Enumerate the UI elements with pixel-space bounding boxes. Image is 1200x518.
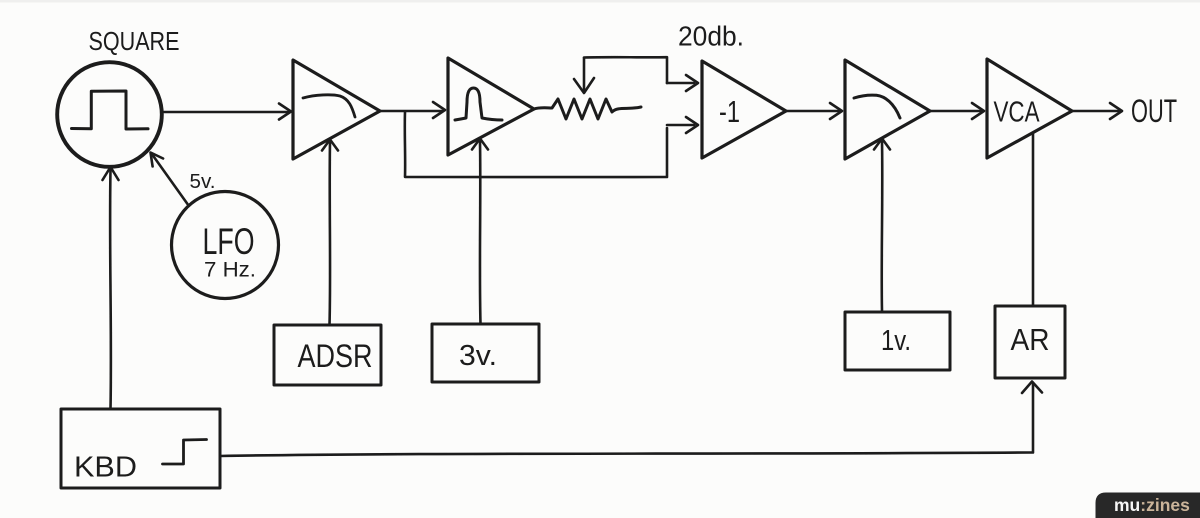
wire: filter A output to filter B bbox=[380, 102, 445, 118]
box ADSR bbox=[274, 325, 381, 385]
svg-text:mu:zines: mu:zines bbox=[1114, 495, 1190, 515]
svg-text:SQUARE: SQUARE bbox=[89, 26, 180, 56]
node: feedback junction and wire down/right to -1 lower input bbox=[405, 112, 698, 177]
filter B triangle (bandpass VCF) bbox=[448, 58, 534, 155]
resistor (20db attenuator) bbox=[534, 99, 641, 119]
box AR bbox=[995, 306, 1065, 378]
scan edge shading (top) bbox=[0, 0, 1200, 3]
svg-text:5v.: 5v. bbox=[190, 171, 216, 193]
label "LFO" bbox=[203, 221, 255, 262]
svg-text:20db.: 20db. bbox=[678, 21, 744, 52]
svg-text:1v.: 1v. bbox=[881, 325, 911, 357]
box 1v. bbox=[845, 312, 950, 370]
svg-text:KBD: KBD bbox=[74, 452, 137, 484]
filter A triangle (lowpass VCF) bbox=[293, 60, 380, 159]
bandpass response curve inside filter B bbox=[455, 88, 502, 120]
label "OUT" bbox=[1131, 93, 1177, 129]
label "SQUARE" bbox=[89, 26, 180, 56]
label "20db." bbox=[678, 21, 744, 52]
wire: VCA output to OUT bbox=[1072, 103, 1122, 119]
wire: -1 output to filter C bbox=[786, 103, 842, 119]
svg-text:OUT: OUT bbox=[1131, 93, 1177, 129]
label "-1" bbox=[719, 94, 740, 129]
step glyph inside KBD box bbox=[163, 440, 207, 465]
wire: VCA to AR box bbox=[1032, 133, 1035, 305]
wire: oscillator output to filter A bbox=[162, 104, 291, 120]
svg-text:LFO: LFO bbox=[203, 221, 255, 262]
wire: 1v box to filter C control (arrow up) bbox=[874, 139, 890, 312]
svg-text:ADSR: ADSR bbox=[298, 338, 373, 374]
svg-text:-1: -1 bbox=[719, 94, 740, 129]
label "5v." bbox=[190, 171, 216, 193]
wire: top path from resistor arrow to -1 upper input bbox=[584, 57, 698, 91]
wire: ADSR to filter A control (arrow up) bbox=[322, 140, 338, 326]
wire: control arrow down onto resistor bbox=[574, 58, 594, 93]
svg-text:7 Hz.: 7 Hz. bbox=[204, 259, 256, 282]
square-wave glyph inside oscillator bbox=[72, 91, 149, 129]
inverter -1 triangle bbox=[702, 61, 786, 158]
filter C triangle (lowpass VCF) bbox=[845, 60, 930, 159]
box 3v. bbox=[432, 324, 539, 382]
wire: 3v box to filter B control (arrow up) bbox=[472, 139, 488, 325]
svg-text:VCA: VCA bbox=[994, 97, 1040, 129]
amplifier VCA triangle bbox=[987, 59, 1072, 158]
lowpass response curve inside filter A bbox=[303, 95, 355, 117]
mu:zines badge bbox=[1096, 493, 1200, 518]
wire: KBD output to AR (arrow up into AR) bbox=[220, 382, 1042, 457]
wire: KBD to oscillator (arrow up) bbox=[103, 167, 119, 409]
oscillator LFO (circle) bbox=[172, 192, 279, 299]
oscillator SQUARE (circle) bbox=[57, 62, 162, 167]
svg-text:3v.: 3v. bbox=[459, 340, 497, 372]
wire: filter C output to VCA bbox=[930, 103, 984, 119]
wire: LFO to oscillator (arrow) bbox=[151, 153, 188, 205]
label "VCA" bbox=[994, 97, 1040, 129]
label "7 Hz." bbox=[204, 259, 256, 282]
box KBD bbox=[61, 409, 220, 488]
lowpass response curve inside filter C bbox=[854, 95, 900, 118]
svg-text:AR: AR bbox=[1011, 322, 1050, 357]
